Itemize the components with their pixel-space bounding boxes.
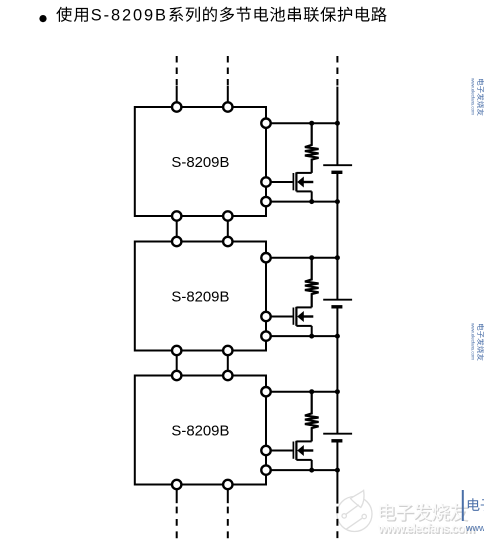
wire U2 bottom pin to battery - rail [266,335,337,337]
svg-text:S-8209B: S-8209B [91,7,168,25]
transistor Q1 drain stub [296,172,311,174]
watermark elecfans blue logo text bottom-right [468,498,484,511]
pin U1 VDD sense [261,119,270,128]
junction node R1/drain top [309,121,314,126]
pin U2 top-right terminal [223,237,232,246]
transistor Q3 N-ch MOSFET: gate wire [266,450,293,452]
battery BT2 short plate (-) [331,305,342,308]
battery BT3 short plate (-) [331,439,342,442]
pin U3 gate drive [261,446,270,455]
svg-text:www.elecfans.com: www.elecfans.com [469,323,475,360]
dashed continuation wire bottom middle [227,507,229,541]
wire Q2 source down to bottom rail [311,326,313,336]
pin U1 VSS [261,197,270,206]
transistor Q1 source stub [296,190,311,192]
transistor Q2 N-ch MOSFET: gate wire [266,316,293,318]
pin U2 VSS [261,331,270,340]
pin U3 top-right terminal [223,371,232,380]
wire cascade connector right U1->U2 [227,220,229,237]
wire battery rail below BT3 [336,443,338,504]
transistor Q1 body stem [303,181,313,183]
wire U3 top pin to battery + rail [266,391,337,393]
pin U3 top-left terminal [172,371,181,380]
transistor Q3 source stub [296,459,311,461]
pin U2 bottom-left terminal [172,346,181,355]
svg-text:www.elecfans.com: www.elecfans.com [465,523,484,533]
resistor R2 [305,258,319,308]
transistor Q1 body arrow [297,177,304,188]
junction node Q1 source [309,199,314,204]
wire battery rail between BT1 and BT2 [336,174,338,300]
battery BT2 long plate (+) [323,299,352,301]
svg-text:S-8209B: S-8209B [171,423,229,439]
junction node battery3 + rail [335,389,340,394]
wire cascade connector left U1->U2 [176,220,178,237]
dashed continuation wire top right (pack+) [336,56,338,88]
transistor Q2 body stem [303,315,313,317]
pin U1 top-right terminal [223,102,232,111]
wire cascade connector left U2->U3 [176,354,178,371]
watermark elecfans blue bar bottom-right [462,490,464,521]
transistor Q2 source stub [296,325,311,327]
pin U1 gate drive [261,177,270,186]
transistor Q2 channel bar [295,307,297,326]
wire stub below U3 right pin [227,489,229,504]
watermark elecfans logo bottom-right embossed calligraphy [379,503,468,522]
transistor Q3 body arrow [297,445,304,456]
transistor Q2 gate bar [292,308,294,325]
pin U2 VDD sense [261,253,270,262]
dashed continuation wire bottom right (pack-) [336,507,338,541]
pin U2 gate drive [261,312,270,321]
transistor Q2 body arrow [297,311,304,322]
transistor Q2 drain stub [296,306,311,308]
transistor Q3 channel bar [295,441,297,460]
pin U3 VDD sense [261,387,270,396]
dashed continuation wire top middle [227,56,229,88]
watermark elecfans embossed url bottom-right [377,522,476,537]
dashed continuation wire bottom left [176,507,178,541]
wire Q3 source down to bottom rail [311,460,313,470]
pin U1 bottom-right terminal [223,211,232,220]
wire U1 bottom pin to battery - rail [266,201,337,203]
battery BT3 long plate (+) [323,433,352,435]
svg-text:www.elecfans.com: www.elecfans.com [377,522,475,536]
svg-text:www.elecfans.com: www.elecfans.com [469,78,475,115]
battery BT1 long plate (+) [323,164,352,166]
pin U1 bottom-left terminal [172,211,181,220]
wire U2 top pin to battery + rail [266,257,337,259]
pin U3 bottom-left terminal [172,480,181,489]
junction node battery1 - rail [335,199,340,204]
junction node R2/drain top [309,255,314,260]
pin U2 bottom-right terminal [223,346,232,355]
IC U3 S-8209B box [135,376,266,485]
transistor Q3 gate bar [292,442,294,459]
wire U1 top pin to battery + rail [266,122,337,124]
transistor Q3 drain stub [296,440,311,442]
IC U2 S-8209B box [135,242,266,351]
transistor Q1 N-ch MOSFET: gate wire [266,181,293,183]
pin U3 VSS [261,465,270,474]
wire battery stack + rail top [336,87,338,166]
transistor Q1 gate bar [292,173,294,190]
svg-text:S-8209B: S-8209B [171,289,229,305]
resistor R1 [305,123,319,173]
resistor R3 [305,392,319,442]
wire battery rail between BT2 and BT3 [336,309,338,434]
junction node Q3 source [309,468,314,473]
title bullet [39,15,46,22]
wire stub below U3 left pin [176,489,178,504]
svg-text:S-8209B: S-8209B [171,155,229,171]
battery BT1 short plate (-) [331,171,342,174]
junction node battery2 + rail [335,255,340,260]
watermark elecfans vertical upper [469,78,484,116]
wire stub to U1 pin [176,86,178,107]
junction node battery1 + rail [335,121,340,126]
junction node R3/drain top [309,389,314,394]
dashed continuation wire top left [176,56,178,88]
watermark elecfans vertical middle [469,323,484,361]
watermark elecfans logo circle mark embossed [337,490,372,531]
IC U1 S-8209B box [135,107,266,216]
transistor Q3 body stem [303,449,313,451]
wire Q1 source down to bottom rail [311,191,313,201]
junction node Q2 source [309,334,314,339]
wire stub to U1 pin [227,86,229,107]
pin U3 bottom-right terminal [223,480,232,489]
wire U3 bottom pin to battery - rail [266,469,337,471]
transistor Q1 channel bar [295,172,297,191]
pin U2 top-left terminal [172,237,181,246]
junction node battery3 - rail [335,468,340,473]
title text 使用S-8209B系列的多节电池串联保护电路 [56,7,386,25]
pin U1 top-left terminal [172,102,181,111]
wire cascade connector right U2->U3 [227,354,229,371]
junction node battery2 - rail [335,334,340,339]
